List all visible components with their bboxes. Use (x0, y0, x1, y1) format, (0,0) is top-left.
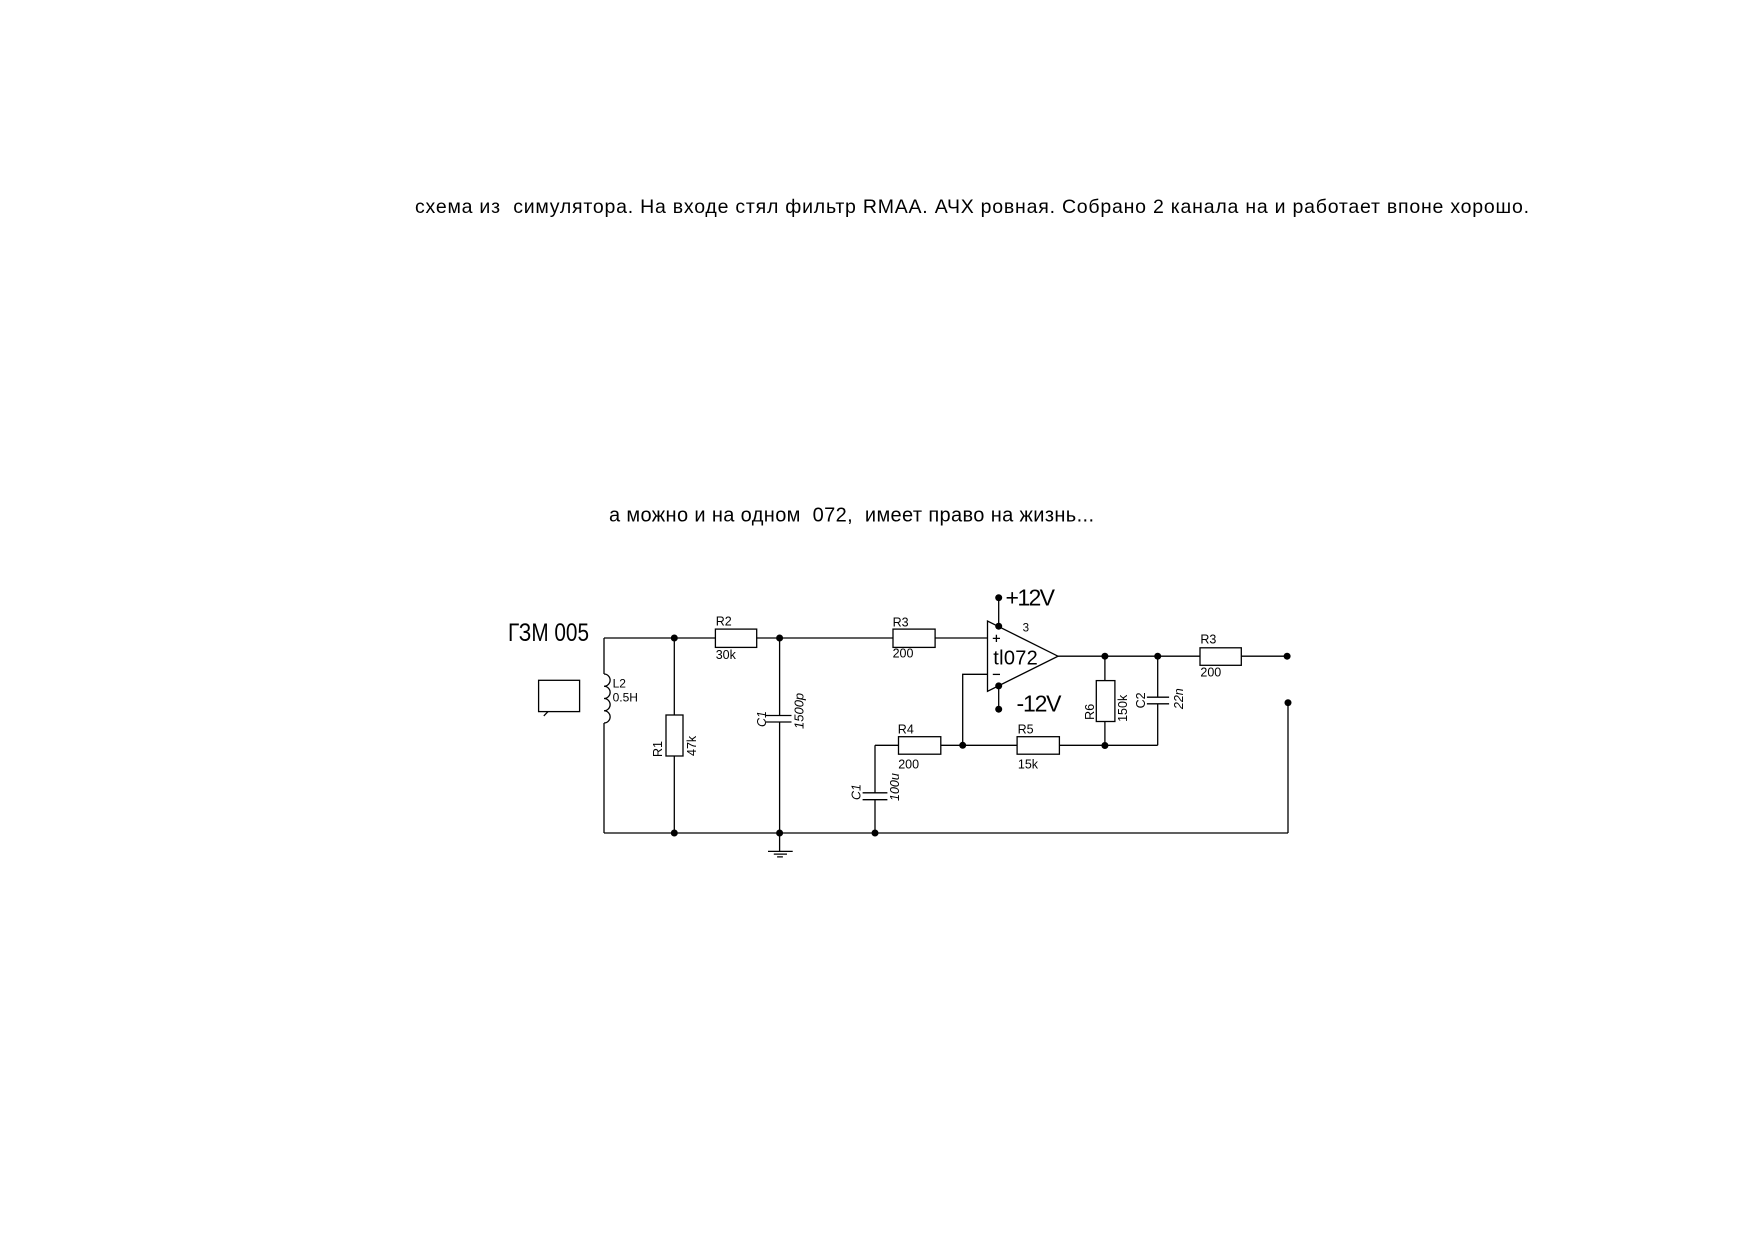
svg-text:L2: L2 (613, 677, 627, 691)
svg-text:R3: R3 (1200, 633, 1216, 647)
svg-text:схема из симулятора. На входе: схема из симулятора. На входе стял фильт… (415, 196, 1529, 218)
svg-text:tl072: tl072 (993, 648, 1038, 670)
svg-text:-12V: -12V (1017, 691, 1063, 717)
svg-text:200: 200 (898, 758, 919, 772)
svg-text:30k: 30k (716, 648, 737, 662)
svg-text:47k: 47k (685, 735, 699, 756)
svg-text:R1: R1 (651, 741, 665, 757)
svg-text:3: 3 (1023, 622, 1029, 635)
svg-text:R6: R6 (1083, 704, 1097, 720)
svg-text:R3: R3 (893, 615, 909, 629)
svg-text:ГЗМ 005: ГЗМ 005 (508, 619, 589, 647)
svg-text:22n: 22n (1172, 688, 1186, 710)
svg-text:200: 200 (893, 647, 914, 661)
svg-text:15k: 15k (1018, 758, 1039, 772)
svg-text:1500p: 1500p (792, 693, 807, 729)
svg-text:R2: R2 (716, 615, 732, 629)
svg-text:0.5H: 0.5H (613, 691, 638, 705)
svg-text:C1: C1 (755, 711, 769, 727)
svg-text:+12V: +12V (1006, 585, 1056, 611)
svg-text:R4: R4 (898, 723, 914, 737)
svg-text:C1: C1 (850, 784, 864, 800)
svg-text:150k: 150k (1116, 694, 1130, 722)
svg-text:200: 200 (1200, 665, 1221, 679)
svg-text:а можно и на одном 072, имее: а можно и на одном 072, имеет право на ж… (609, 505, 1094, 527)
svg-text:R5: R5 (1018, 723, 1034, 737)
svg-text:C2: C2 (1134, 692, 1148, 708)
svg-text:100u: 100u (888, 773, 902, 801)
